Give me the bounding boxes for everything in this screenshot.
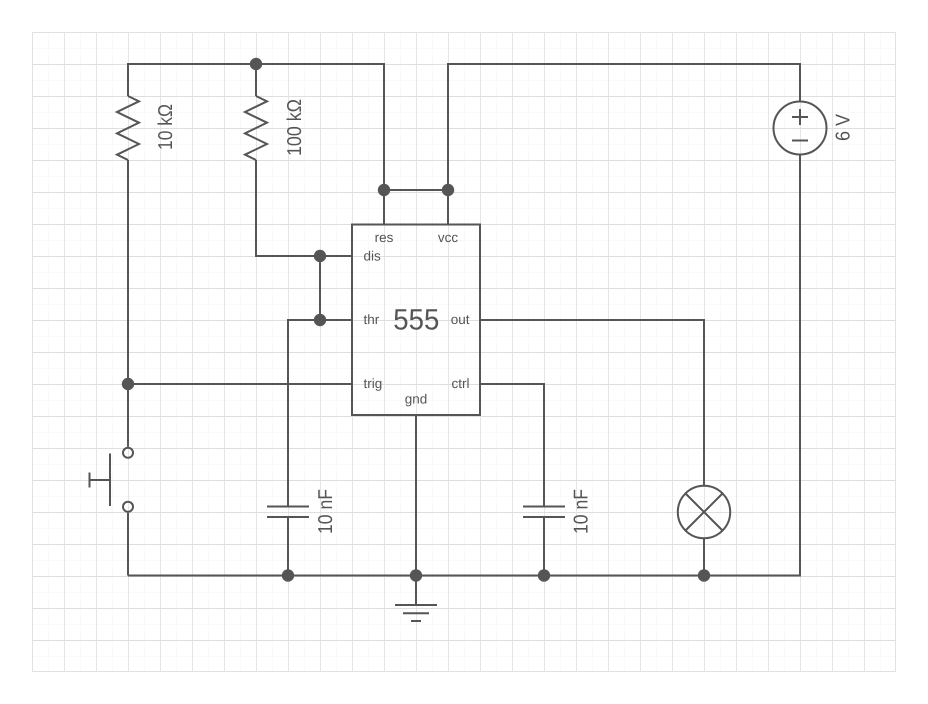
pin label ctrl [452,376,470,391]
ground lead [415,576,417,605]
wire R2 bottom to dis wire [256,160,352,256]
svg-text:out: out [451,312,470,327]
lamp cross [686,494,723,531]
pushbutton S1 cap [89,473,91,488]
wire gnd pin down to bus [415,416,417,576]
resistor R1 10k zigzag [117,96,139,160]
wire vcc pin stub [447,190,449,225]
node junction bus lamp [698,569,710,581]
wire res-vcc link horizontal [384,189,448,191]
pin label thr [364,312,380,327]
label C1 value 10 nF [315,489,337,534]
label C2 value 10 nF [571,489,593,534]
label R1 value 10 kOhm [155,104,177,150]
svg-text:dis: dis [364,248,382,263]
label U1 555 [393,304,439,337]
wire R1 bottom to trig node [127,160,129,447]
pushbutton S1 shaft [90,479,111,481]
svg-text:10 nF: 10 nF [315,489,337,534]
svg-text:ctrl: ctrl [452,376,470,391]
wire R2 top lead [255,64,257,96]
resistor R2 100k zigzag [245,96,267,160]
pushbutton S1 bottom contact [123,502,133,512]
svg-text:100 kΩ: 100 kΩ [284,99,306,156]
lamp body [678,486,730,538]
label V1 value 6 V [833,113,855,141]
voltage source V1 plus sign [792,109,808,125]
wire bottom bus and battery negative riser [128,155,800,576]
wire dis-thr link vertical [319,256,321,320]
pin label gnd [405,392,428,407]
svg-text:555: 555 [393,304,439,337]
svg-text:6 V: 6 V [833,113,855,141]
node junction bus C2 [538,569,550,581]
capacitor C1 bottom plate [267,516,309,518]
ground symbol [395,605,437,621]
wire button bottom to bus [127,513,129,576]
node junction top bus R2 [250,58,262,70]
svg-text:res: res [375,230,394,245]
svg-text:thr: thr [364,312,380,327]
pin label vcc [438,230,459,245]
node junction trig [122,378,134,390]
capacitor C2 bottom plate [523,516,565,518]
svg-text:10 kΩ: 10 kΩ [155,104,177,150]
wire ctrl to C2 [480,384,544,506]
node junction dis [314,250,326,262]
pushbutton S1 top contact [123,448,133,458]
wire out horizontal to lamp [480,320,704,486]
node junction thr [314,314,326,326]
wire top bus left from R1 top to res drop [128,64,384,190]
pin label res [375,230,394,245]
label R2 value 100 kOhm [284,99,306,156]
svg-text:10 nF: 10 nF [571,489,593,534]
svg-text:gnd: gnd [405,392,428,407]
wire thr horizontal and down to C1 [288,320,352,506]
pin label trig [364,376,383,391]
voltage source V1 minus sign [792,140,808,142]
capacitor C2 top plate [523,506,565,508]
wire lamp bottom lead [703,539,705,576]
node junction bus C1 [282,569,294,581]
pushbutton S1 actuator bar [109,454,111,507]
wire C2 bottom lead [543,518,545,576]
IC U1 555 timer box [352,225,480,416]
wire vcc riser and top bus right to battery [448,64,800,190]
node junction vcc link right [442,184,454,196]
pin label out [451,312,470,327]
wire res pin stub [383,190,385,225]
svg-text:vcc: vcc [438,230,459,245]
node junction res link left [378,184,390,196]
wire C1 bottom lead [287,518,289,576]
node junction bus gnd [410,569,422,581]
pin label dis [364,248,382,263]
svg-text:trig: trig [364,376,383,391]
wire trig horizontal [128,383,352,385]
voltage source V1 body [774,102,827,155]
capacitor C1 top plate [267,506,309,508]
